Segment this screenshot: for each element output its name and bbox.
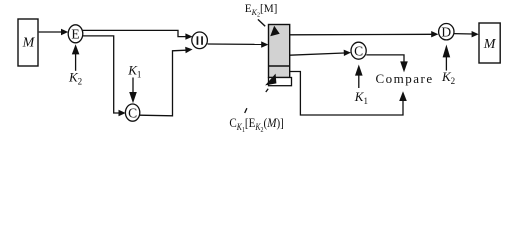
arrow K2 to D xyxy=(443,45,451,71)
matched entry box (white) xyxy=(269,78,292,86)
op E (encrypt) xyxy=(68,25,83,43)
arrow K2 to E xyxy=(72,44,80,71)
leader from label E_K2[M] to table xyxy=(258,19,265,26)
svg-text:Compare: Compare xyxy=(376,71,434,86)
wire C up to II (lower) xyxy=(140,47,193,116)
arrow K1 to C (right) xyxy=(355,65,363,89)
svg-text:C: C xyxy=(128,106,137,121)
wire table to D xyxy=(290,31,439,37)
wire table to C (right) xyxy=(290,50,351,56)
arrow K1 to C xyxy=(129,78,137,104)
op C (right, recompute) xyxy=(351,42,366,59)
table of E_K2[M] values (gray) xyxy=(269,25,290,78)
box M (left plaintext) xyxy=(18,19,38,66)
dashed leader to label C_K1[E_K2(M)] xyxy=(245,89,269,113)
wire E to II (upper) xyxy=(83,30,193,39)
svg-text:E: E xyxy=(71,27,79,42)
op II (concatenate) xyxy=(192,32,208,49)
op D (decrypt) xyxy=(439,24,454,40)
wire E down to C xyxy=(83,36,126,116)
wire matched entry to Compare (bottom) xyxy=(290,72,407,116)
svg-text:M: M xyxy=(22,35,36,50)
arrowhead at matched entry xyxy=(265,74,276,86)
svg-text:M: M xyxy=(483,37,497,52)
svg-text:D: D xyxy=(441,25,451,40)
wire II to table xyxy=(208,41,269,47)
op C (encrypt to codeword) xyxy=(125,104,139,121)
wire D to M xyxy=(454,31,479,37)
wire C (right) down to Compare xyxy=(366,55,408,73)
box M (right, recovered) xyxy=(479,23,500,63)
sort-order arrowhead inside table xyxy=(270,26,280,37)
wire M to E xyxy=(39,29,68,35)
svg-text:C: C xyxy=(354,44,363,59)
